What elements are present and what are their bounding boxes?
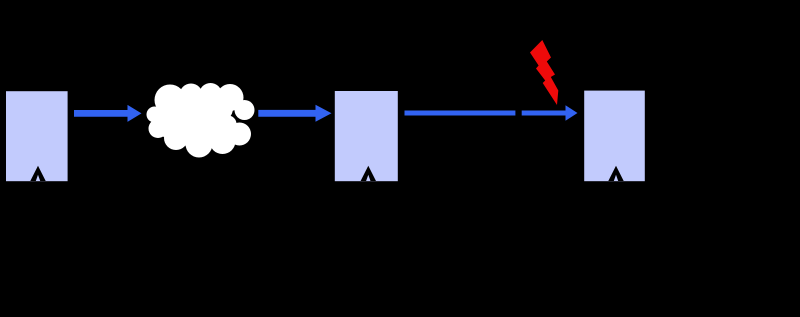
clock input wedge R3: [608, 166, 623, 181]
register R1: [5, 90, 69, 182]
combinational logic cloud: [147, 83, 255, 158]
glitch lightning bolt: [530, 40, 558, 105]
wire: arrow cloud to R2: [258, 105, 331, 122]
wire: long arrow R2 to R3 (broken): [405, 105, 578, 120]
clock input wedge R2: [361, 166, 376, 181]
clock input wedge R1: [30, 166, 45, 181]
wire: arrow R1 to cloud: [74, 105, 142, 122]
register R2: [334, 90, 399, 182]
register R3: [583, 90, 646, 183]
